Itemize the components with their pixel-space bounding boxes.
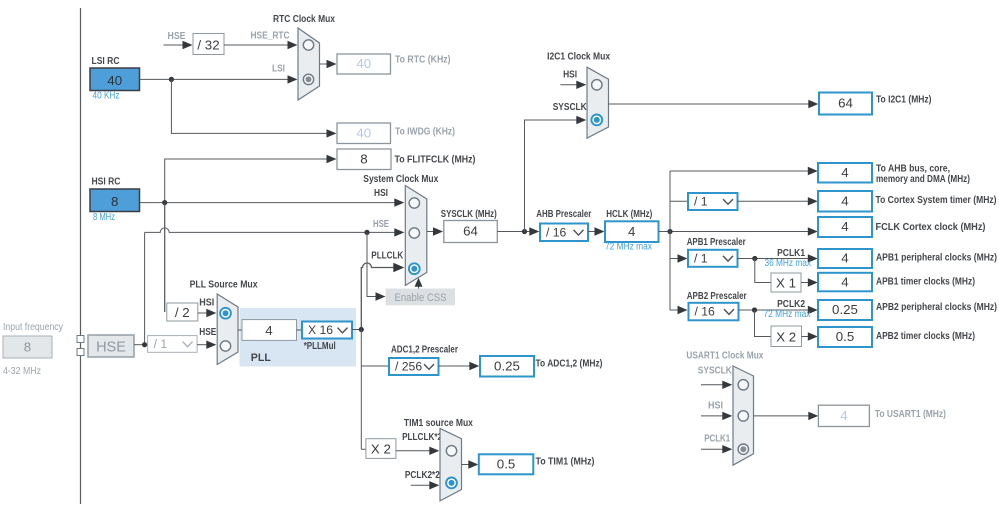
wire to ADC prescaler <box>361 365 389 367</box>
svg-text:HSE: HSE <box>199 327 216 338</box>
left vertical rail <box>80 8 82 504</box>
i2c1 radio SYSCLK selected <box>591 115 602 126</box>
wire HSE vertical <box>144 232 146 344</box>
wire HSE to enable CSS <box>367 232 378 296</box>
svg-text:SYSCLK (MHz): SYSCLK (MHz) <box>441 209 497 220</box>
svg-text:/ 1: / 1 <box>694 195 708 209</box>
svg-text:8 MHz: 8 MHz <box>93 212 115 223</box>
wire /32 to RTC mux <box>224 44 289 46</box>
svg-text:PCLK1: PCLK1 <box>704 434 730 445</box>
wire HCLK to FCLK <box>659 231 810 233</box>
svg-text:HSE: HSE <box>373 219 389 230</box>
svg-text:RTC Clock Mux: RTC Clock Mux <box>273 14 335 25</box>
PLLM value box <box>242 320 297 341</box>
svg-text:HSI: HSI <box>708 401 723 412</box>
svg-text:HSE: HSE <box>168 31 186 42</box>
wire to FLITFCLK <box>165 159 328 312</box>
Enable CSS button <box>386 289 455 305</box>
junction HSE css <box>364 230 369 235</box>
svg-text:LSI: LSI <box>272 64 285 75</box>
wire to cortex prescaler <box>670 200 688 202</box>
usart radio SYSCLK <box>738 380 748 390</box>
wire HSE junction to /1 <box>134 344 148 346</box>
AHB prescaler dropdown <box>540 224 588 242</box>
divider /2 box <box>167 303 198 321</box>
To TIM1 value box <box>479 454 534 474</box>
wire HSI to USART mux <box>701 415 724 417</box>
To Cortex value box <box>818 191 872 212</box>
TIM1 source mux <box>440 428 462 501</box>
usart radio PCLK1 selected <box>738 444 748 454</box>
wire PLLM to PLLMul <box>297 329 303 331</box>
HSE source box <box>88 335 134 357</box>
svg-text:HSE: HSE <box>96 340 126 356</box>
wire I2C1 mux to I2C1 box <box>608 103 810 105</box>
svg-text:SYSCLK: SYSCLK <box>553 102 588 113</box>
svg-text:HSI: HSI <box>374 188 388 199</box>
pll blue region <box>240 308 357 367</box>
svg-text:HSE_RTC: HSE_RTC <box>251 31 290 42</box>
wire HSE to /32 divider <box>164 44 185 46</box>
svg-text:X 16: X 16 <box>308 323 333 337</box>
junction HCLK <box>667 229 672 234</box>
svg-text:0.5: 0.5 <box>836 329 855 344</box>
junction LSI <box>169 77 174 82</box>
wire /2 to PLL mux <box>198 312 208 314</box>
APB2 peripheral value box <box>818 300 872 320</box>
svg-text:/ 2: / 2 <box>175 305 190 320</box>
usart radio HSI <box>738 411 748 421</box>
To IWDG value box <box>337 123 391 144</box>
svg-text:4: 4 <box>841 219 848 234</box>
wire PCLK1 to USART mux <box>701 448 724 450</box>
svg-text:/ 32: / 32 <box>197 38 219 53</box>
svg-text:/ 16: / 16 <box>546 225 567 239</box>
svg-text:To I2C1 (MHz): To I2C1 (MHz) <box>876 95 932 106</box>
wire RTC mux to RTC box <box>320 63 330 65</box>
USART1 clock mux <box>733 366 754 465</box>
wire PLLCLK to system mux with hop <box>361 263 396 330</box>
wire /1 to PLL mux <box>197 344 208 346</box>
svg-text:ADC1,2 Prescaler: ADC1,2 Prescaler <box>391 344 458 355</box>
wire ADC prescaler to ADC box <box>439 365 472 367</box>
pllmux radio HSE <box>220 341 230 351</box>
svg-text:Enable CSS: Enable CSS <box>395 292 447 304</box>
wire SYSCLK to AHB prescaler <box>497 231 531 233</box>
wire PCLK2*2 to TIM1 mux <box>411 484 431 486</box>
RTC mux radio LSI selected <box>303 74 313 84</box>
svg-text:To IWDG (KHz): To IWDG (KHz) <box>395 127 455 138</box>
svg-text:Input frequency: Input frequency <box>3 322 63 333</box>
wire X2 to APB2 timer box <box>802 336 810 338</box>
wire mux to PLLM box <box>238 329 242 331</box>
svg-text:4: 4 <box>841 274 848 289</box>
wire AHB prescaler to HCLK <box>588 231 597 233</box>
svg-text:To Cortex System timer (MHz): To Cortex System timer (MHz) <box>876 195 997 206</box>
svg-text:40: 40 <box>107 73 122 88</box>
sysmux radio PLLCLK selected <box>409 263 420 274</box>
svg-text:4: 4 <box>841 165 848 180</box>
TIM1 X2 box <box>366 439 396 459</box>
wire USART mux to USART box <box>754 415 811 417</box>
svg-text:36 MHz max: 36 MHz max <box>765 258 812 269</box>
wire cortex prescaler to cortex box <box>738 200 810 202</box>
To USART1 value box <box>818 405 869 426</box>
PLL trunk down <box>360 330 362 450</box>
svg-text:PLLCLK*2: PLLCLK*2 <box>402 432 442 443</box>
wire HSI to system mux <box>140 202 397 204</box>
svg-text:TIM1 source Mux: TIM1 source Mux <box>404 418 473 429</box>
i2c1 radio HSI <box>592 80 602 90</box>
ADC prescaler dropdown <box>389 358 439 375</box>
svg-text:0.25: 0.25 <box>832 302 858 317</box>
svg-text:4-32 MHz: 4-32 MHz <box>3 366 41 377</box>
HSI RC source box <box>90 189 140 212</box>
PLLMul dropdown <box>302 322 352 339</box>
I2C1 clock mux <box>587 67 609 138</box>
wire to AHB bus box <box>670 170 810 172</box>
RTC clock mux <box>298 28 320 100</box>
svg-text:0.5: 0.5 <box>497 457 516 472</box>
HSE pin squares <box>77 336 84 343</box>
cortex prescaler dropdown <box>688 193 738 210</box>
sysmux radio HSI <box>409 198 419 208</box>
svg-text:APB1 peripheral clocks (MHz): APB1 peripheral clocks (MHz) <box>876 253 997 264</box>
wire APB2 to PCLK2 box <box>739 309 810 311</box>
input frequency box <box>3 336 52 358</box>
wire PLL out <box>352 329 361 331</box>
X2 multiplier box <box>771 326 802 347</box>
wire APB1 to X1 <box>755 259 771 283</box>
svg-text:40: 40 <box>356 56 371 71</box>
svg-text:SYSCLK: SYSCLK <box>698 366 733 377</box>
svg-text:To FLITFCLK (MHz): To FLITFCLK (MHz) <box>395 154 476 165</box>
wire SYSCLK to USART mux <box>701 384 724 386</box>
svg-text:To USART1 (MHz): To USART1 (MHz) <box>875 409 946 420</box>
AHB trunk vertical <box>669 171 671 310</box>
wire to TIM1 X2 <box>361 448 366 450</box>
svg-text:To AHB bus, core,: To AHB bus, core, <box>876 163 950 174</box>
svg-text:0.25: 0.25 <box>494 358 520 373</box>
RTC mux radio HSE_RTC <box>303 40 313 50</box>
To FLITFCLK value box <box>337 149 391 170</box>
HCLK value box <box>605 221 659 242</box>
wire HSI to I2C1 mux <box>560 84 578 86</box>
svg-text:LSI RC: LSI RC <box>92 56 120 67</box>
PLL source mux <box>217 294 238 365</box>
To I2C1 value box <box>819 93 872 115</box>
svg-text:AHB Prescaler: AHB Prescaler <box>536 209 591 220</box>
LSI RC source box <box>90 68 140 91</box>
wire HSE to system mux with hop <box>145 228 396 233</box>
svg-text:To TIM1 (MHz): To TIM1 (MHz) <box>536 456 595 467</box>
svg-text:I2C1 Clock Mux: I2C1 Clock Mux <box>547 52 610 63</box>
svg-text:4: 4 <box>841 251 848 266</box>
svg-text:HSI RC: HSI RC <box>92 177 121 188</box>
svg-text:8: 8 <box>111 194 118 209</box>
pllmux radio HSI selected <box>220 308 231 319</box>
svg-text:USART1 Clock Mux: USART1 Clock Mux <box>686 351 763 362</box>
svg-text:PCLK2*2: PCLK2*2 <box>405 470 440 481</box>
wire APB1 to PCLK1 box <box>738 258 810 260</box>
To ADC value box <box>480 356 534 377</box>
SYSCLK value box <box>444 221 498 243</box>
divider /32 box <box>193 34 224 55</box>
wire SYSCLK to I2C1 mux <box>525 120 579 232</box>
APB1 timer value box <box>818 273 872 292</box>
svg-text:HSI: HSI <box>563 70 577 81</box>
junction APB2 <box>752 307 757 312</box>
junction HSI <box>162 200 167 205</box>
svg-text:4: 4 <box>841 193 848 208</box>
svg-text:HCLK (MHz): HCLK (MHz) <box>606 209 652 220</box>
svg-text:APB1 timer clocks (MHz): APB1 timer clocks (MHz) <box>876 277 975 288</box>
APB2 timer value box <box>818 327 872 347</box>
svg-text:X 1: X 1 <box>776 275 796 290</box>
To FCLK value box <box>818 217 872 237</box>
wire X2 to TIM1 mux <box>396 450 431 452</box>
svg-text:To ADC1,2 (MHz): To ADC1,2 (MHz) <box>536 358 603 369</box>
svg-text:APB1 Prescaler: APB1 Prescaler <box>687 237 746 248</box>
svg-text:APB2 timer clocks (MHz): APB2 timer clocks (MHz) <box>876 331 975 342</box>
wire to APB1 prescaler <box>670 258 680 260</box>
svg-text:PLLCLK: PLLCLK <box>371 251 404 262</box>
wire APB2 to X2 <box>755 310 772 337</box>
svg-text:PLL: PLL <box>251 352 271 364</box>
wire HSI to /2 divider <box>164 203 166 312</box>
sysmux radio HSE <box>409 228 419 238</box>
To AHB value box <box>818 163 872 183</box>
svg-text:4: 4 <box>840 408 847 423</box>
svg-text:/ 256: / 256 <box>395 360 422 374</box>
wire to APB2 prescaler <box>670 309 680 311</box>
svg-text:72 MHz max: 72 MHz max <box>764 309 811 320</box>
PREDIV /1 dropdown disabled <box>148 336 198 353</box>
svg-text:/ 1: / 1 <box>694 251 708 265</box>
svg-text:4: 4 <box>265 323 272 338</box>
svg-text:40 KHz: 40 KHz <box>93 91 120 102</box>
svg-text:*PLLMul: *PLLMul <box>304 341 336 352</box>
svg-text:PLL Source Mux: PLL Source Mux <box>190 279 258 290</box>
svg-text:/ 1: / 1 <box>154 337 168 351</box>
svg-text:To RTC (KHz): To RTC (KHz) <box>395 55 451 66</box>
junction PLL out <box>359 327 364 332</box>
APB2 prescaler dropdown <box>689 303 739 321</box>
wire enable CSS up arrow <box>418 284 420 289</box>
wire system mux to SYSCLK box <box>427 231 435 233</box>
svg-text:HSI: HSI <box>199 298 214 309</box>
svg-text:64: 64 <box>838 96 853 111</box>
svg-text:APB2 Prescaler: APB2 Prescaler <box>687 291 747 302</box>
svg-text:40: 40 <box>356 125 371 140</box>
wire TIM1 mux to TIM1 box <box>462 464 471 466</box>
To RTC value box <box>337 54 391 74</box>
APB1 peripheral value box <box>818 249 872 268</box>
svg-text:X 2: X 2 <box>776 329 796 344</box>
svg-text:8: 8 <box>360 151 367 166</box>
svg-text:memory and DMA (MHz): memory and DMA (MHz) <box>876 174 970 185</box>
svg-text:8: 8 <box>24 339 31 354</box>
system clock mux <box>405 186 427 286</box>
svg-text:72 MHz max: 72 MHz max <box>605 242 652 253</box>
wire LSI to RTC mux <box>140 78 290 80</box>
svg-text:System Clock Mux: System Clock Mux <box>363 174 438 185</box>
svg-text:APB2 peripheral clocks (MHz): APB2 peripheral clocks (MHz) <box>876 302 997 313</box>
tim1 radio PCLK22 selected <box>446 478 457 489</box>
svg-text:4: 4 <box>628 224 635 239</box>
tim1 radio PLLCLK2 <box>446 446 456 456</box>
svg-text:FCLK Cortex clock (MHz): FCLK Cortex clock (MHz) <box>876 222 986 233</box>
svg-text:/ 16: / 16 <box>695 305 716 319</box>
wire LSI to IWDG <box>171 79 328 133</box>
junction HSE source <box>142 342 147 347</box>
X1 multiplier box <box>771 273 801 292</box>
junction APB1 <box>752 256 757 261</box>
svg-text:X 2: X 2 <box>371 442 391 457</box>
APB1 prescaler dropdown <box>688 250 738 267</box>
junction SYSCLK <box>522 229 527 234</box>
svg-text:64: 64 <box>463 224 478 239</box>
wire X1 to APB1 timer box <box>801 282 810 284</box>
